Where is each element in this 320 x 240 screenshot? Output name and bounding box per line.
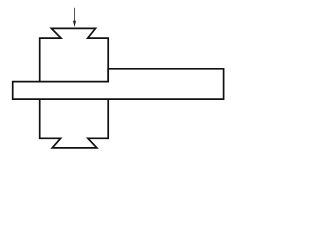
shaft (stepped horizontal bar through hub) [13,69,224,99]
hub (vertical member with zigzag break lines top and bottom) [40,28,109,147]
force arrow pressing down on hub [73,8,76,27]
arrowhead [73,21,76,27]
arrow shaft [74,8,76,22]
